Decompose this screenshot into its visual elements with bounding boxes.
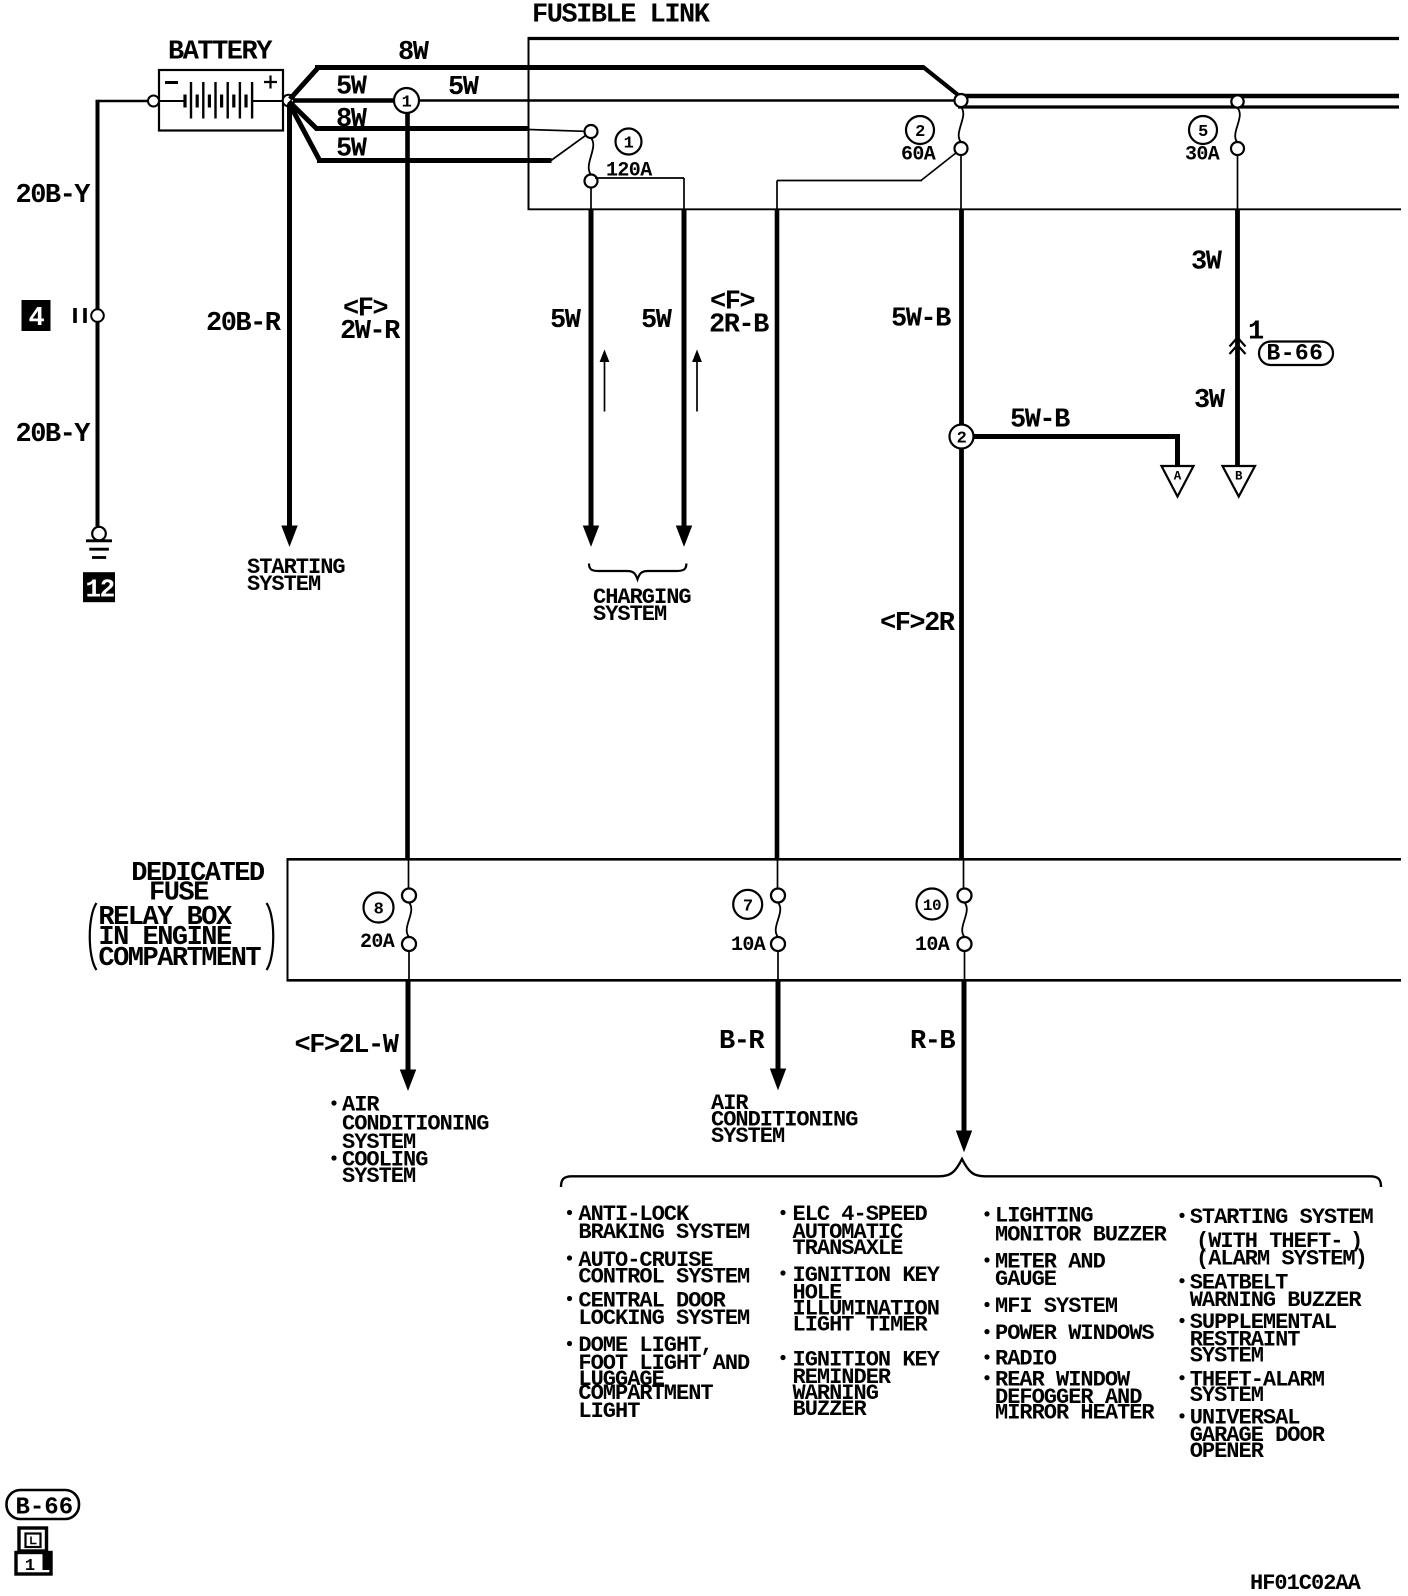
list column 1: auto-cruise control system	[567, 1248, 750, 1290]
svg-text:SYSTEM: SYSTEM	[1190, 1383, 1264, 1408]
label FUSIBLE LINK	[532, 1, 711, 31]
battery positive node	[283, 95, 295, 107]
label DEDICATED FUSE (RELAY BOX IN ENGINE COMPARTMENT)	[90, 859, 274, 974]
svg-text:5W-B: 5W-B	[891, 305, 951, 335]
svg-text:120A: 120A	[606, 160, 652, 183]
list column 4: supplemental restraint system	[1179, 1310, 1337, 1368]
fusible link 2 (60A) top node	[955, 94, 968, 107]
svg-text:5: 5	[1198, 123, 1208, 142]
svg-text:B-66: B-66	[16, 1495, 74, 1522]
wire F 2L-W to air conditioning system	[401, 980, 416, 1089]
brace charging system	[589, 564, 686, 580]
connector ref pill B-66 bottom left	[7, 1490, 80, 1522]
label 5W-B branch	[1010, 406, 1070, 436]
battery B1	[159, 70, 283, 131]
list column 1: dome light foot light luggage compartment light	[567, 1333, 750, 1424]
connector 4 symbol on 20B-Y wire	[75, 308, 104, 323]
label CHARGING SYSTEM	[593, 585, 691, 627]
label F 2R	[880, 609, 956, 639]
svg-text:BATTERY: BATTERY	[168, 37, 273, 67]
svg-text:SYSTEM: SYSTEM	[1190, 1343, 1264, 1368]
svg-text:B: B	[1235, 470, 1243, 484]
wire 20B-Y from battery negative to ground	[98, 100, 149, 527]
label 5W left of junction 1	[336, 73, 368, 103]
svg-text:1: 1	[25, 1557, 35, 1576]
wire F 2W-R from junction 1 down to dedicated fuse box	[405, 113, 410, 860]
fusible link 2 (60A)	[901, 107, 968, 167]
svg-text:BUZZER: BUZZER	[793, 1397, 868, 1422]
list column 4: theft-alarm system	[1179, 1367, 1324, 1408]
svg-text:STARTING SYSTEM: STARTING SYSTEM	[1190, 1205, 1374, 1230]
label 20B-Y upper	[16, 181, 92, 211]
label F 2L-W	[295, 1031, 400, 1061]
reference arrow up (left)	[600, 351, 608, 412]
svg-text:2: 2	[957, 430, 967, 449]
battery negative terminal	[148, 96, 159, 107]
wire 8W top from battery to fusible link bus	[290, 67, 960, 100]
svg-text:1: 1	[402, 94, 412, 113]
wire 20B-R from battery positive to starting system	[282, 105, 297, 546]
list column 3: power windows	[984, 1321, 1154, 1346]
triangle B	[1223, 466, 1256, 497]
svg-text:60A: 60A	[901, 144, 936, 167]
fuse 8 (20A) in dedicated box	[360, 859, 416, 980]
svg-text:20A: 20A	[360, 931, 395, 954]
list column 3: lighting monitor buzzer	[984, 1204, 1167, 1248]
label 20B-Y lower	[16, 420, 92, 450]
label 3W lower	[1194, 386, 1226, 416]
svg-text:CONTROL SYSTEM: CONTROL SYSTEM	[578, 1265, 750, 1290]
label AIR CONDITIONING SYSTEM right	[711, 1091, 858, 1149]
svg-text:1: 1	[624, 135, 634, 154]
svg-text:12: 12	[86, 575, 115, 605]
wire 5W lower from battery to fusible link	[289, 103, 587, 161]
list column 2: elc 4-speed automatic transaxle	[780, 1202, 927, 1261]
list column 3: radio	[984, 1347, 1056, 1372]
svg-text:MFI SYSTEM: MFI SYSTEM	[995, 1294, 1118, 1319]
svg-text:SYSTEM: SYSTEM	[711, 1124, 785, 1149]
label 1 at chevrons	[1248, 318, 1264, 348]
svg-text:COMPARTMENT: COMPARTMENT	[98, 944, 261, 974]
svg-text:2W-R: 2W-R	[340, 317, 401, 347]
label 5W lower	[336, 135, 368, 165]
list column 1: central door locking system	[567, 1289, 750, 1332]
svg-text:10A: 10A	[731, 934, 766, 957]
brace systems list	[561, 1159, 1381, 1187]
junction bubble 1	[394, 88, 419, 113]
svg-text:BRAKING SYSTEM: BRAKING SYSTEM	[578, 1220, 750, 1245]
list column 3: meter and gauge	[984, 1250, 1105, 1293]
svg-text:B-66: B-66	[1267, 341, 1324, 367]
continuation chevrons on 3W wire	[1230, 338, 1246, 355]
label 20B-R	[206, 309, 282, 339]
wire from fusible link 1 to box bottom (left branch)	[591, 178, 684, 209]
ground ref box 12	[83, 572, 115, 604]
svg-text:3W: 3W	[1194, 386, 1226, 416]
svg-text:(ALARM SYSTEM): (ALARM SYSTEM)	[1196, 1246, 1367, 1271]
triangle A	[1162, 466, 1194, 497]
label 5W charging right	[641, 306, 673, 336]
list column 4: starting system with theft-alarm system	[1179, 1205, 1373, 1271]
list column 2: ignition key hole illumination light timer	[780, 1263, 940, 1338]
svg-text:LIGHT TIMER: LIGHT TIMER	[793, 1313, 929, 1338]
wire 5W from battery through junction 1	[293, 98, 955, 103]
svg-text:5W: 5W	[336, 73, 368, 103]
reference arrow up (right)	[693, 351, 701, 412]
svg-text:POWER WINDOWS: POWER WINDOWS	[995, 1321, 1154, 1346]
wire 5W charging left	[584, 209, 599, 545]
label 5W right of junction 1	[448, 73, 480, 103]
svg-text:2R-B: 2R-B	[709, 311, 769, 341]
ground G1	[86, 527, 112, 558]
label R-B	[910, 1027, 955, 1057]
wire F 2R from junction 2 down to dedicated fuse box	[959, 448, 964, 860]
label 8W top	[398, 38, 430, 68]
wire R-B to systems brace	[957, 980, 972, 1151]
svg-text:<F>2L-W: <F>2L-W	[295, 1031, 400, 1061]
list column 4: universal garage door opener	[1179, 1406, 1325, 1464]
fusible link 5 (30A)	[1185, 95, 1244, 166]
bus wire upper right (to x=1399)	[958, 94, 1399, 98]
wire 5W-B branch to triangle A	[973, 434, 1178, 465]
svg-text:3W: 3W	[1191, 248, 1223, 278]
svg-text:2: 2	[915, 123, 925, 142]
svg-text:10: 10	[923, 897, 941, 915]
fusible link box	[528, 37, 1402, 209]
svg-text:8: 8	[374, 901, 384, 920]
list column 1: anti-lock braking system	[567, 1202, 750, 1245]
junction bubble 2	[950, 425, 974, 449]
svg-text:5W: 5W	[641, 306, 673, 336]
svg-text:GAUGE: GAUGE	[995, 1267, 1057, 1292]
bus wire lower right	[958, 105, 1399, 108]
svg-text:5W: 5W	[336, 135, 368, 165]
svg-text:5W: 5W	[550, 306, 582, 336]
svg-text:SYSTEM: SYSTEM	[342, 1164, 416, 1189]
svg-text:SYSTEM: SYSTEM	[247, 572, 321, 597]
label 5W charging left	[550, 306, 582, 336]
svg-text:<F>2R: <F>2R	[880, 609, 956, 639]
connector ref box 4	[22, 300, 51, 334]
svg-text:7: 7	[743, 897, 753, 916]
svg-text:5W: 5W	[448, 73, 480, 103]
svg-text:MIRROR HEATER: MIRROR HEATER	[995, 1401, 1155, 1426]
svg-text:SYSTEM: SYSTEM	[593, 602, 667, 627]
list column 3: rear window defogger and mirror heater	[984, 1367, 1155, 1425]
list column 4: seatbelt warning buzzer	[1179, 1270, 1362, 1313]
label 5W-B vertical wire	[891, 305, 951, 335]
wire 8W lower from battery to fusible link	[289, 102, 585, 132]
svg-text:8W: 8W	[336, 105, 368, 135]
wire F 2R-B down to dedicated fuse box	[775, 209, 780, 860]
svg-text:1: 1	[1248, 318, 1264, 348]
svg-text:R-B: R-B	[910, 1027, 955, 1057]
label STARTING SYSTEM	[247, 555, 345, 597]
svg-text:A: A	[1174, 470, 1182, 484]
svg-text:LOCKING SYSTEM: LOCKING SYSTEM	[578, 1306, 750, 1331]
fusible link 1 (120A)	[585, 125, 653, 188]
label F 2R-B	[709, 288, 769, 341]
svg-text:30A: 30A	[1185, 144, 1220, 167]
connector icon bottom left	[16, 1528, 51, 1576]
svg-text:5W-B: 5W-B	[1010, 406, 1070, 436]
fuse 7 (10A) in dedicated box	[731, 859, 785, 980]
svg-text:20B-Y: 20B-Y	[16, 181, 92, 211]
wire 5W charging right	[677, 209, 692, 545]
fuse 10 (10A) in dedicated box	[915, 859, 972, 980]
svg-text:4: 4	[29, 304, 45, 334]
svg-text:20B-Y: 20B-Y	[16, 420, 92, 450]
label HF01C02AA	[1250, 1571, 1362, 1596]
svg-text:8W: 8W	[398, 38, 430, 68]
svg-text:B-R: B-R	[719, 1027, 765, 1057]
svg-text:HF01C02AA: HF01C02AA	[1250, 1571, 1362, 1596]
svg-text:MONITOR BUZZER: MONITOR BUZZER	[995, 1223, 1168, 1248]
label 8W lower	[336, 105, 368, 135]
connector ref pill B-66 top right	[1259, 341, 1333, 367]
list column 3: mfi system	[984, 1294, 1117, 1319]
wire B-R to air conditioning system	[771, 980, 786, 1089]
svg-text:TRANSAXLE: TRANSAXLE	[793, 1236, 904, 1261]
wire 5W-B from box bottom to junction 2	[959, 209, 964, 425]
svg-text:OPENER: OPENER	[1190, 1439, 1265, 1464]
svg-text:LIGHT: LIGHT	[578, 1399, 640, 1424]
label 3W upper	[1191, 248, 1223, 278]
label BATTERY	[168, 37, 273, 67]
list column 2: ignition key reminder warning buzzer	[780, 1348, 940, 1423]
svg-text:20B-R: 20B-R	[206, 309, 282, 339]
label F 2W-R	[340, 295, 401, 348]
dedicated fuse box	[287, 858, 1402, 981]
label AIR CONDITIONING / COOLING SYSTEM list	[331, 1093, 489, 1189]
label B-R	[719, 1027, 765, 1057]
wire from fusible link 2 bottom to 2R-B drop	[777, 153, 961, 210]
wire 3W from fusible link 5 to triangle B	[1237, 155, 1239, 466]
svg-text:10A: 10A	[915, 934, 950, 957]
svg-text:FUSIBLE LINK: FUSIBLE LINK	[532, 1, 711, 31]
